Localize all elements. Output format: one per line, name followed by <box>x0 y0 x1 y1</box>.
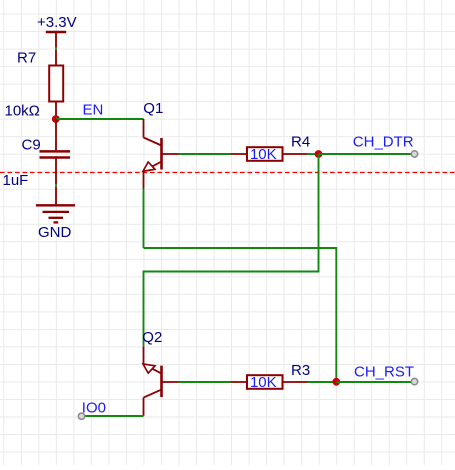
power +3.3V <box>37 14 77 48</box>
svg-text:+3.3V: +3.3V <box>37 14 77 31</box>
ground GND <box>36 187 75 241</box>
svg-text:CH_RST: CH_RST <box>354 363 414 380</box>
wire <box>308 381 337 383</box>
svg-text:1uF: 1uF <box>3 172 29 189</box>
svg-text:C9: C9 <box>22 137 41 154</box>
transistor Q2 <box>142 329 178 416</box>
wire crossover H2 <box>144 154 319 346</box>
svg-text:10K: 10K <box>250 374 277 391</box>
wire <box>179 381 231 383</box>
node CH_DTR junction <box>315 150 323 158</box>
resistor R4 <box>231 134 311 163</box>
svg-text:R4: R4 <box>291 134 310 151</box>
node CH_RST junction <box>332 378 340 386</box>
resistor R3 <box>231 362 311 391</box>
transistor Q1 <box>143 100 179 189</box>
svg-text:Q2: Q2 <box>142 329 162 346</box>
svg-text:10kΩ: 10kΩ <box>5 103 40 120</box>
svg-text:CH_DTR: CH_DTR <box>353 133 414 150</box>
wire crossover H1 <box>144 248 337 382</box>
wire to CH_DTR pin <box>319 153 415 155</box>
capacitor C9 <box>3 137 71 190</box>
svg-text:10K: 10K <box>250 146 277 163</box>
wire IO0 <box>82 415 144 417</box>
wire EN <box>56 118 144 120</box>
wire to CH_RST pin <box>336 381 414 383</box>
wire Q1 emitter to crossover <box>143 189 145 249</box>
svg-text:GND: GND <box>38 224 72 241</box>
terminal IO0 <box>78 413 84 419</box>
terminal CH_RST <box>411 378 417 384</box>
svg-text:IO0: IO0 <box>82 399 106 416</box>
node EN junction <box>52 115 60 123</box>
wire <box>55 119 57 150</box>
resistor R7 <box>5 50 64 120</box>
svg-text:R3: R3 <box>291 362 310 379</box>
svg-text:Q1: Q1 <box>143 100 163 117</box>
svg-text:R7: R7 <box>17 50 36 67</box>
terminal CH_DTR <box>411 151 417 157</box>
boundary dashed line <box>0 172 455 174</box>
svg-text:EN: EN <box>83 102 104 119</box>
wire <box>55 184 57 187</box>
wire <box>179 153 231 155</box>
wire <box>308 153 319 155</box>
wire <box>55 48 57 50</box>
